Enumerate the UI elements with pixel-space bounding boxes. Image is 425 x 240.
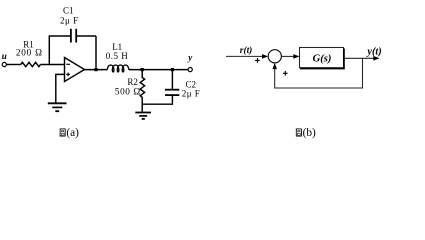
node (R2 junction) (141, 68, 144, 71)
capacitor C2 (165, 70, 200, 99)
svg-text:0.5 H: 0.5 H (106, 51, 129, 61)
feedback wire (272, 58, 362, 88)
wire non-inverting input to ground (56, 74, 65, 102)
capacitor C1 (49, 6, 96, 70)
wire R1 to op-amp (41, 64, 65, 66)
wire C2 bottom to ground link (142, 96, 172, 112)
svg-text:2μ F: 2μ F (182, 88, 201, 98)
plus sign (input) (255, 58, 260, 63)
input terminal u (2, 51, 7, 66)
svg-text:500 Ω: 500 Ω (115, 86, 141, 96)
svg-text:u: u (2, 51, 7, 61)
wire input to R1 (6, 64, 20, 66)
wire summing junction to block with arrowhead (281, 54, 299, 59)
svg-text:G(s): G(s) (313, 54, 332, 65)
svg-text:200 Ω: 200 Ω (16, 48, 43, 58)
node (C1 feedback junction) (94, 68, 97, 71)
ground (R2/C2) (135, 113, 151, 119)
ground (op-amp) (48, 103, 67, 111)
svg-text:y(t): y(t) (365, 46, 381, 57)
plus sign (feedback) (283, 71, 288, 76)
summing junction (268, 50, 281, 63)
resistor R1 (16, 40, 43, 67)
caption 圖(a) (60, 127, 79, 139)
resistor R2 (115, 70, 145, 104)
wire r(t) input with arrowhead (226, 54, 268, 59)
svg-text:(b): (b) (303, 127, 316, 139)
block G(s) (300, 48, 344, 69)
svg-text:2μ F: 2μ F (60, 16, 79, 26)
svg-text:(a): (a) (66, 127, 79, 139)
node (C2 junction) (171, 68, 174, 71)
svg-text:r(t): r(t) (240, 45, 253, 56)
inductor L1 (106, 42, 129, 72)
wire block output with arrowhead and label y(t) (344, 46, 382, 60)
svg-text:C1: C1 (63, 6, 74, 16)
svg-text:R2: R2 (127, 77, 138, 87)
op-amp U1 (65, 58, 85, 82)
wire L1 to output terminal rail (129, 69, 188, 71)
output terminal y (187, 52, 193, 71)
caption 圖(b) (296, 127, 316, 139)
wire op-amp output rail (85, 69, 108, 71)
